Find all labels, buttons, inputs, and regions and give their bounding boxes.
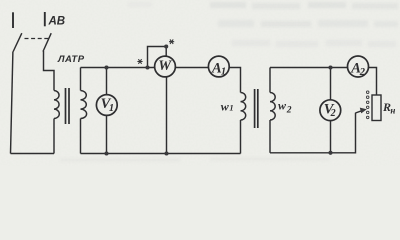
svg-text:н: н — [390, 105, 395, 115]
svg-text:2: 2 — [286, 106, 292, 116]
svg-text:1: 1 — [229, 103, 233, 113]
svg-text:ЛАТР: ЛАТР — [57, 54, 85, 65]
svg-text:АВ: АВ — [48, 15, 66, 27]
svg-text:w: w — [278, 99, 287, 113]
svg-text:W: W — [158, 58, 172, 74]
svg-text:1: 1 — [109, 103, 114, 114]
svg-text:2: 2 — [330, 108, 336, 119]
svg-text:2: 2 — [359, 67, 366, 78]
svg-text:1: 1 — [221, 66, 226, 77]
